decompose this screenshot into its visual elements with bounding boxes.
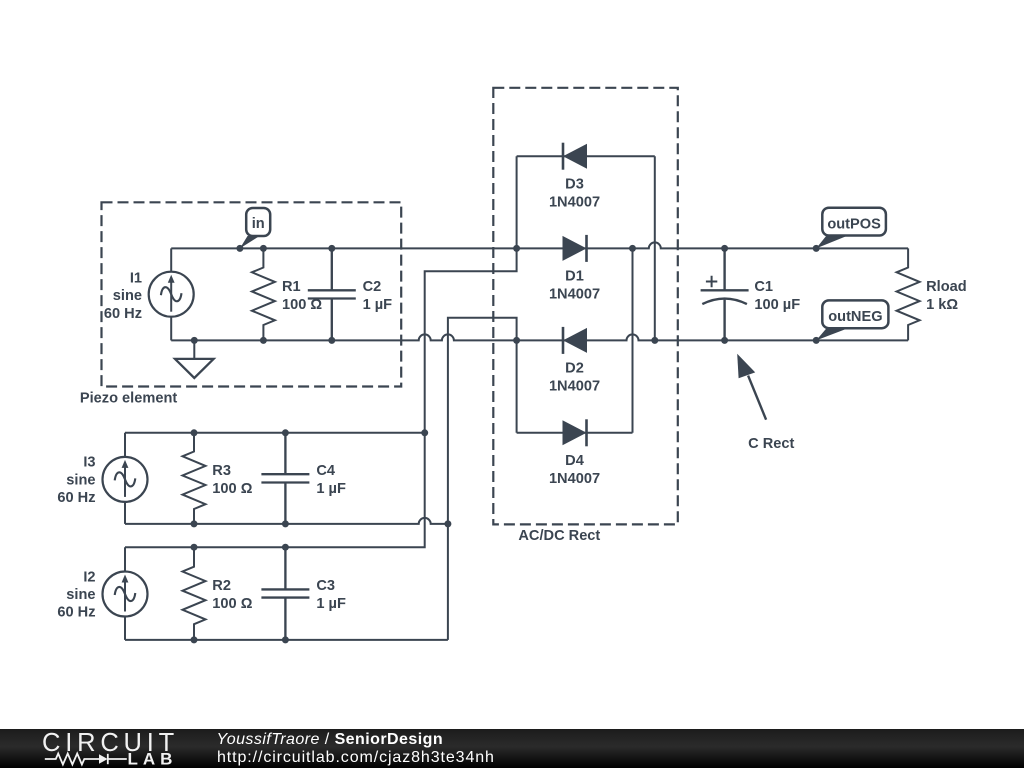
wire B: bottom net to I3/I2 bottoms (448, 318, 517, 640)
junction C3 bottom (282, 636, 289, 643)
svg-text:in: in (252, 216, 265, 232)
junction wireA I3 top (421, 429, 428, 436)
junction ground tap (191, 337, 198, 344)
resistor R2 (183, 547, 206, 640)
capacitor C3 (261, 547, 309, 640)
wire: D3 top row (517, 155, 655, 157)
junction C4 top (282, 429, 289, 436)
junction R3 bottom (191, 520, 198, 527)
AC/DC Rect dashed box (493, 88, 678, 525)
svg-text:R2: R2 (212, 578, 231, 594)
wire: bridge right column (D1 to D4) (632, 248, 634, 432)
wire: I2 left branch (124, 547, 126, 640)
resistor Rload (897, 248, 920, 340)
junction R2 bottom (191, 636, 198, 643)
svg-text:1 µF: 1 µF (363, 297, 393, 313)
svg-text:R3: R3 (212, 463, 231, 479)
svg-text:outPOS: outPOS (827, 216, 881, 232)
svg-text:100 Ω: 100 Ω (212, 481, 252, 497)
svg-text:1N4007: 1N4007 (549, 194, 600, 210)
svg-text:C1: C1 (754, 279, 773, 295)
svg-text:1N4007: 1N4007 (549, 471, 600, 487)
current source I2 (103, 572, 148, 617)
CircuitLab logo (42, 729, 179, 768)
logo resistor+diode glyph (45, 754, 127, 765)
junction R3 top (191, 429, 198, 436)
svg-text:D3: D3 (565, 177, 584, 193)
capacitor C4 (261, 433, 309, 524)
svg-text:R1: R1 (282, 279, 301, 295)
ground (175, 340, 214, 378)
junction C2 top (328, 245, 335, 252)
svg-text:1N4007: 1N4007 (549, 287, 600, 303)
svg-text:I3: I3 (83, 455, 95, 471)
svg-text:1N4007: 1N4007 (549, 379, 600, 395)
svg-text:LAB: LAB (128, 750, 178, 768)
svg-text:C Rect: C Rect (748, 436, 794, 452)
svg-text:60 Hz: 60 Hz (104, 306, 142, 322)
svg-text:sine: sine (66, 587, 95, 603)
svg-text:sine: sine (113, 288, 142, 304)
wire: bottom main rail (outNEG row) (171, 334, 908, 340)
svg-text:100 µF: 100 µF (754, 297, 800, 313)
junction bridge left bottom (513, 337, 520, 344)
svg-text:AC/DC Rect: AC/DC Rect (518, 528, 600, 544)
node outNEG tap (813, 337, 820, 344)
junction C4 bottom (282, 520, 289, 527)
wire: I3 bottom rail (125, 518, 448, 524)
svg-text:1 kΩ: 1 kΩ (926, 297, 958, 313)
diode D4 (563, 419, 587, 446)
Piezo element dashed box (102, 202, 402, 386)
junction D1 cathode column (629, 245, 636, 252)
wire: I3 top rail (125, 432, 425, 434)
svg-text:sine: sine (66, 472, 95, 488)
junction C1 top (721, 245, 728, 252)
junction wireB I3 bottom (444, 520, 451, 527)
svg-text:C3: C3 (316, 578, 335, 594)
svg-text:1 µF: 1 µF (316, 596, 346, 612)
node flag outNEG (816, 300, 888, 340)
node flag in (240, 208, 270, 248)
svg-text:60 Hz: 60 Hz (57, 605, 95, 621)
diode D3 (563, 143, 587, 170)
resistor R3 (183, 433, 206, 524)
svg-text:1 µF: 1 µF (316, 481, 346, 497)
svg-text:D4: D4 (565, 453, 585, 469)
junction bridge left top (in net) (513, 245, 520, 252)
capacitor C1 (polarized) (701, 248, 749, 340)
capacitor C2 (308, 248, 356, 340)
svg-text:I2: I2 (83, 569, 95, 585)
wire: I3 left branch (124, 433, 126, 524)
resistor R1 (252, 248, 275, 340)
svg-text:D2: D2 (565, 361, 584, 377)
junction D2 anode column (651, 337, 658, 344)
diode D2 (563, 327, 587, 354)
junction C3 top (282, 544, 289, 551)
node outPOS tap (813, 245, 820, 252)
wire: bridge left column (516, 156, 518, 248)
junction R1 bottom (260, 337, 267, 344)
wire: top main rail (in / outPOS row) (171, 242, 908, 248)
junction C1 bottom (721, 337, 728, 344)
annotation arrow C Rect (737, 354, 766, 420)
wire: bridge right column (D3 to D2) (654, 156, 656, 340)
svg-text:I1: I1 (130, 271, 142, 287)
svg-text:outNEG: outNEG (828, 309, 882, 325)
svg-text:C2: C2 (363, 279, 382, 295)
junction R1 top (260, 245, 267, 252)
wire: I2 bottom rail (125, 639, 448, 641)
node flag outPOS (816, 208, 886, 249)
svg-text:100 Ω: 100 Ω (282, 297, 322, 313)
svg-text:D1: D1 (565, 269, 584, 285)
svg-text:YoussifTraore / SeniorDesign: YoussifTraore / SeniorDesign (217, 731, 444, 748)
svg-text:Piezo element: Piezo element (80, 391, 177, 407)
junction C2 bottom (328, 337, 335, 344)
wire: I1 left branch (170, 248, 172, 272)
svg-text:http://circuitlab.com/cjaz8h3t: http://circuitlab.com/cjaz8h3te34nh (217, 749, 495, 766)
svg-text:100 Ω: 100 Ω (212, 596, 252, 612)
diode D1 (563, 235, 587, 262)
svg-text:C4: C4 (316, 463, 336, 479)
node in flag tap (236, 245, 243, 252)
svg-text:60 Hz: 60 Hz (57, 490, 95, 506)
junction R2 top (191, 544, 198, 551)
svg-text:Rload: Rload (926, 279, 967, 295)
current source I3 (103, 457, 148, 502)
wire A: in-net to I3/I2 tops (125, 248, 517, 547)
current source I1 (149, 272, 194, 317)
wire: D4 bottom row (517, 432, 633, 434)
